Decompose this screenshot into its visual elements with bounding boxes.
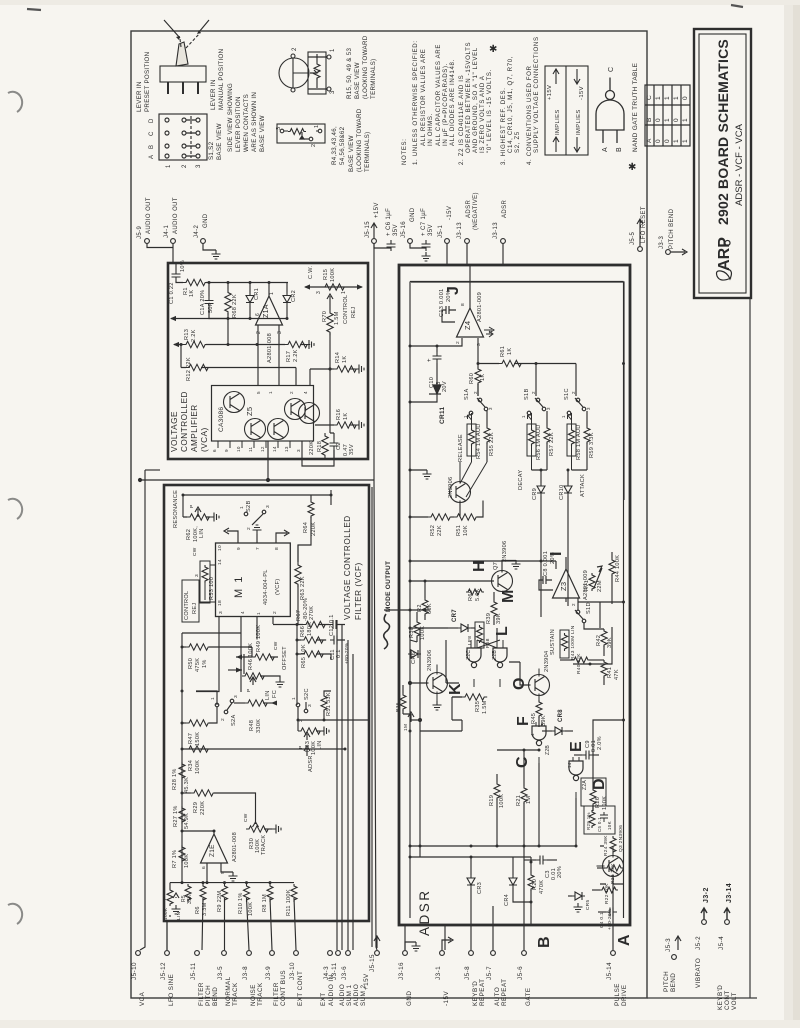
connector J5-7 — [491, 951, 496, 956]
svg-text:R50: R50 — [188, 658, 194, 669]
connector J5-6 — [522, 951, 527, 956]
svg-text:R52: R52 — [430, 525, 436, 536]
wire gate vertical — [405, 811, 613, 950]
svg-text:R25 1%: R25 1% — [586, 812, 591, 830]
op-amp Z1A — [256, 296, 283, 325]
pot R62 — [183, 495, 210, 517]
svg-text:J5-7: J5-7 — [486, 966, 493, 980]
svg-text:3: 3 — [586, 407, 591, 410]
svg-text:ADSR: ADSR — [466, 199, 472, 218]
svg-text:BASE VIEW: BASE VIEW — [259, 115, 266, 152]
svg-text:+80-20%: +80-20% — [607, 908, 613, 930]
resistor R14 — [329, 368, 332, 371]
connector J5-8 — [469, 951, 474, 956]
connector J3-11 — [336, 951, 341, 956]
svg-text:1: 1 — [210, 697, 216, 700]
resistor R34 — [182, 748, 186, 750]
connector J3-6 — [346, 951, 351, 956]
ground C7 — [422, 252, 431, 261]
svg-text:3: 3 — [265, 505, 271, 508]
diode CR9 — [540, 470, 542, 483]
svg-text:J3-5: J3-5 — [217, 966, 224, 980]
svg-text:R44 100K: R44 100K — [615, 555, 621, 582]
svg-text:S1D: S1D — [586, 602, 592, 614]
svg-text:R39: R39 — [486, 613, 492, 624]
svg-text:NAND GATE TRUTH TABLE: NAND GATE TRUTH TABLE — [632, 62, 639, 152]
resistor R51b — [451, 516, 454, 518]
svg-text:-15V: -15V — [447, 206, 453, 220]
svg-text:R28 1%: R28 1% — [172, 768, 178, 790]
svg-text:J3-1: J3-1 — [435, 966, 442, 980]
rail R67 C12 — [273, 624, 345, 626]
pot R71 — [594, 566, 602, 588]
pot arrows AUD — [468, 415, 572, 420]
svg-text:GATE: GATE — [525, 988, 532, 1006]
op-amp Z4 — [457, 308, 484, 337]
svg-text:8: 8 — [274, 547, 280, 550]
resistor R50 — [182, 646, 186, 648]
svg-text:CONT BUS: CONT BUS — [280, 970, 287, 1006]
svg-text:4: 4 — [530, 733, 535, 736]
svg-text:C1A 20%: C1A 20% — [200, 290, 206, 315]
gap bus VCF border double line — [371, 487, 373, 947]
svg-text:J3-6: J3-6 — [341, 966, 348, 980]
svg-text:REPEAT: REPEAT — [501, 979, 508, 1006]
wire gap horizontal — [140, 479, 374, 481]
resistor R23 — [597, 867, 605, 869]
resistor R55 — [486, 411, 488, 426]
wire R40 right — [573, 663, 590, 665]
wire Z3 input rail — [410, 561, 590, 602]
wire ADSR into box — [502, 243, 504, 265]
svg-text:3: 3 — [277, 331, 283, 334]
svg-text:1: 1 — [314, 125, 320, 128]
svg-text:1: 1 — [682, 139, 689, 143]
connector J4-3 — [328, 951, 333, 956]
connector J5-16 GND — [408, 239, 413, 244]
wire right border connects — [590, 627, 624, 780]
connector J5-15 +15V — [372, 239, 377, 244]
svg-text:47K: 47K — [614, 669, 620, 680]
resistor R1 — [183, 279, 208, 285]
svg-text:S1B: S1B — [524, 389, 530, 400]
rail 3 R12 — [181, 367, 296, 369]
svg-text:R20: R20 — [532, 879, 538, 890]
resistor R69 — [466, 580, 494, 582]
svg-text:2: 2 — [571, 391, 576, 394]
svg-text:Z2C: Z2C — [466, 650, 472, 660]
svg-text:VOLT: VOLT — [731, 992, 738, 1010]
svg-text:1: 1 — [256, 612, 262, 615]
svg-text:50P: 50P — [208, 302, 214, 313]
resistor R21 — [521, 786, 527, 804]
svg-text:3: 3 — [488, 407, 493, 410]
svg-text:IN µF (P=PICOFARADS).: IN µF (P=PICOFARADS). — [442, 63, 449, 146]
svg-text:SUSTAIN: SUSTAIN — [550, 629, 556, 655]
svg-text:1: 1 — [664, 96, 671, 100]
capacitor C6 — [374, 243, 391, 248]
connector J5-3 pitch bend — [672, 955, 677, 960]
capacitor C1 — [175, 263, 177, 270]
svg-text:SUM 1: SUM 1 — [346, 984, 353, 1006]
svg-text:2: 2 — [531, 391, 536, 394]
svg-text:R58 1M AUD: R58 1M AUD — [576, 424, 582, 460]
svg-text:OFFSET: OFFSET — [282, 646, 288, 670]
svg-text:ALL RESISTOR VALUES ARE: ALL RESISTOR VALUES ARE — [420, 49, 427, 146]
diode CR4 — [512, 862, 514, 875]
svg-text:CONTROL: CONTROL — [343, 295, 349, 324]
svg-text:LEVER IN: LEVER IN — [210, 79, 217, 110]
diode CR2 — [286, 283, 288, 293]
resistor R2 — [422, 598, 428, 616]
svg-text:20%: 20% — [557, 866, 563, 878]
svg-text:S2B: S2B — [246, 501, 252, 512]
svg-text:(NEGATIVE): (NEGATIVE) — [473, 192, 479, 230]
svg-text:LIN: LIN — [176, 911, 182, 920]
svg-text:1: 1 — [269, 292, 275, 295]
svg-text:R41: R41 — [607, 667, 613, 678]
svg-text:R51: R51 — [456, 525, 462, 536]
svg-text:7: 7 — [255, 547, 261, 550]
svg-text:J3-14: J3-14 — [726, 883, 733, 903]
svg-text:TRACK: TRACK — [261, 835, 267, 855]
VCF label — [343, 515, 363, 620]
connector J3-5 — [222, 951, 227, 956]
svg-text:R49 100K: R49 100K — [256, 625, 262, 652]
svg-text:Z4: Z4 — [463, 321, 472, 330]
svg-text:4: 4 — [240, 611, 246, 614]
svg-text:J5-2: J5-2 — [695, 936, 702, 950]
svg-text:NOISE: NOISE — [250, 984, 257, 1006]
wire Z1E out — [206, 882, 208, 884]
rail R66 C11 — [297, 625, 345, 706]
svg-text:+80-20%: +80-20% — [344, 642, 350, 664]
svg-text:R14: R14 — [335, 352, 341, 363]
connector J5-4 keybd cont volt — [725, 920, 730, 925]
svg-text:VIBRATO: VIBRATO — [695, 958, 702, 988]
svg-text:5: 5 — [256, 391, 261, 394]
conventions box — [545, 66, 588, 155]
svg-text:R59 3.3K: R59 3.3K — [589, 432, 595, 458]
svg-text:(LOOKING TOWARD: (LOOKING TOWARD — [356, 108, 363, 172]
Z4 output arrows — [484, 327, 494, 337]
wire y750 rail — [497, 749, 539, 751]
svg-text:CW: CW — [192, 547, 198, 556]
transistor Q3 — [603, 856, 624, 877]
svg-text:2.2K: 2.2K — [191, 329, 197, 342]
svg-text:5: 5 — [220, 871, 226, 874]
wire pulse R22 — [600, 875, 623, 885]
svg-text:ADSR: ADSR — [502, 199, 508, 218]
svg-text:R15, 50, 49 & 53: R15, 50, 49 & 53 — [346, 48, 353, 99]
connector J4-2 — [201, 239, 206, 244]
svg-text:1: 1 — [166, 164, 172, 168]
svg-text:J3-10: J3-10 — [289, 962, 296, 980]
svg-text:REJ: REJ — [192, 603, 198, 614]
svg-text:A: A — [149, 155, 155, 159]
resistor R41 — [601, 660, 607, 678]
svg-text:CR5: CR5 — [585, 899, 591, 910]
svg-text:475K: 475K — [195, 658, 201, 672]
svg-text:R70: R70 — [322, 311, 328, 322]
ground Q7 — [502, 561, 516, 573]
svg-text:CW: CW — [243, 813, 249, 822]
svg-text:1K: 1K — [342, 356, 348, 363]
svg-text:B: B — [646, 118, 653, 122]
svg-text:LIN: LIN — [265, 690, 271, 700]
wire CR7 rail — [410, 628, 475, 640]
svg-text:MANUAL POSITION: MANUAL POSITION — [218, 49, 225, 110]
svg-text:B: B — [616, 147, 623, 152]
svg-text:R27 1%: R27 1% — [173, 805, 179, 827]
NAND Z2C — [467, 648, 481, 668]
svg-text:2: 2 — [246, 527, 252, 530]
svg-text:LF8: LF8 — [467, 636, 473, 645]
ground R14 — [355, 365, 364, 374]
resistor R18 — [329, 368, 332, 371]
svg-text:LFO RESET: LFO RESET — [641, 206, 647, 243]
svg-text:CR2: CR2 — [291, 290, 297, 302]
svg-text:J5-14: J5-14 — [606, 962, 613, 980]
svg-text:1M: 1M — [526, 796, 532, 804]
IC M1 — [216, 543, 291, 617]
svg-text:R36: R36 — [395, 702, 401, 712]
resistor R36 — [400, 693, 406, 711]
right verticals audio bus — [337, 620, 353, 950]
svg-text:P: P — [246, 689, 252, 693]
svg-text:H: H — [471, 560, 488, 572]
svg-text:2: 2 — [256, 331, 262, 334]
trimpot base view — [277, 124, 325, 143]
-15V arrow — [442, 937, 453, 950]
svg-text:FILTER: FILTER — [198, 982, 205, 1006]
svg-text:AUDIO OUT: AUDIO OUT — [146, 197, 152, 234]
punch hole bottom — [8, 904, 22, 924]
resistor R19 — [494, 782, 500, 800]
connector J3-10 — [294, 951, 299, 956]
svg-text:CR1: CR1 — [254, 288, 260, 300]
wire VCF left stub — [145, 469, 160, 471]
resistor R57 — [546, 411, 548, 426]
svg-text:D: D — [149, 118, 155, 123]
IC CA3086 Z5 — [212, 386, 314, 442]
svg-text:R22 10K: R22 10K — [604, 883, 610, 904]
wires into CA3086 — [268, 337, 334, 480]
svg-text:1%: 1% — [202, 659, 208, 668]
svg-text:J4-1: J4-1 — [164, 224, 170, 238]
resistor R35 — [452, 696, 462, 698]
wire -15V into gap — [446, 243, 448, 265]
trimpot box R26 — [581, 778, 606, 806]
svg-text:P: P — [189, 505, 195, 509]
wire adsr mid extras — [410, 628, 531, 720]
resistor R70 — [327, 310, 333, 335]
svg-text:1: 1 — [561, 415, 566, 418]
pot R33 — [298, 728, 323, 734]
NAND Z2A — [569, 761, 583, 781]
svg-text:R57 22K: R57 22K — [549, 432, 555, 456]
svg-text:AND GROUND, SO A "1" LEVEL: AND GROUND, SO A "1" LEVEL — [472, 47, 479, 153]
svg-text:R4,33,43,46,: R4,33,43,46, — [331, 126, 338, 165]
svg-text:J5-11: J5-11 — [190, 962, 197, 980]
svg-text:VOLTAGE: VOLTAGE — [170, 411, 179, 452]
rail y749 — [182, 748, 345, 750]
svg-text:2: 2 — [182, 164, 188, 168]
svg-text:Z3: Z3 — [559, 582, 568, 591]
resistor R26 — [590, 788, 596, 806]
svg-text:R60: R60 — [469, 373, 475, 384]
connector J3-1 — [440, 951, 445, 956]
svg-text:2. Z2 IS CD4011AE AND IS: 2. Z2 IS CD4011AE AND IS — [458, 75, 465, 165]
svg-text:C8 0.001: C8 0.001 — [543, 551, 549, 576]
svg-text:R63 22K: R63 22K — [300, 576, 306, 600]
svg-text:NOTES:: NOTES: — [401, 138, 408, 165]
svg-text:+ C6 1µF: + C6 1µF — [386, 208, 392, 236]
svg-text:220K: 220K — [200, 801, 206, 815]
svg-text:1: 1 — [673, 96, 680, 100]
svg-text:R18: R18 — [317, 441, 323, 452]
svg-text:J3-2: J3-2 — [703, 887, 710, 903]
svg-text:C14, CR10, J5, M1, Q7, R70,: C14, CR10, J5, M1, Q7, R70, — [507, 56, 514, 153]
svg-text:R65 10K: R65 10K — [301, 644, 307, 668]
pot R68b — [475, 622, 484, 648]
svg-text:(LOOKING TOWARD: (LOOKING TOWARD — [362, 35, 369, 99]
svg-text:AMPLIFIER: AMPLIFIER — [190, 404, 199, 452]
main outer frame — [131, 31, 647, 998]
connector J5-2 vibrato — [702, 920, 707, 925]
VCA label — [170, 391, 209, 452]
svg-text:ARP: ARP — [716, 237, 733, 271]
svg-text:S1C: S1C — [564, 388, 570, 400]
svg-text:R54 1M AUD: R54 1M AUD — [476, 423, 482, 459]
mode output squiggle — [384, 614, 390, 649]
capacitor C13 — [442, 306, 456, 322]
connector J3-13 ADSR — [501, 239, 506, 244]
capacitor C3 — [524, 859, 536, 861]
svg-text:IN OHMS.: IN OHMS. — [427, 113, 434, 146]
svg-text:R64: R64 — [303, 522, 309, 533]
diode CR3 — [470, 857, 472, 875]
capacitor C2 — [330, 433, 334, 439]
svg-text:3: 3 — [233, 695, 239, 698]
resistor R22 — [592, 889, 600, 891]
pot R5 input — [169, 883, 171, 889]
NAND Z2B — [532, 726, 546, 746]
svg-text:0: 0 — [673, 118, 680, 122]
svg-text:IMPLIES: IMPLIES — [555, 109, 561, 135]
truth table — [645, 85, 690, 146]
svg-text:2N3906: 2N3906 — [502, 541, 508, 562]
connector J3-9 — [270, 951, 275, 956]
resistor R17 — [281, 344, 305, 346]
svg-text:A: A — [616, 934, 633, 946]
svg-text:ALL DIODES ARE IN4148.: ALL DIODES ARE IN4148. — [449, 59, 456, 146]
svg-text:C4 0.1: C4 0.1 — [599, 912, 605, 928]
resistor R45 — [536, 700, 542, 718]
svg-text:3: 3 — [307, 704, 313, 707]
resistor R27 — [179, 806, 185, 824]
corner registration marks — [27, 5, 743, 10]
VCA box — [168, 263, 368, 459]
svg-text:R66: R66 — [300, 626, 306, 637]
svg-text:2: 2 — [311, 144, 317, 147]
svg-text:R48: R48 — [249, 720, 255, 731]
svg-text:2.0%: 2.0% — [597, 736, 603, 750]
svg-text:VCA: VCA — [139, 991, 146, 1006]
svg-text:P: P — [162, 897, 168, 901]
ARP logo — [716, 237, 733, 280]
wire top rail — [183, 494, 331, 496]
svg-text:✱: ✱ — [489, 44, 498, 55]
resistor R38 — [414, 620, 420, 638]
svg-text:BEND: BEND — [212, 987, 219, 1006]
svg-text:+15V: +15V — [547, 85, 553, 100]
svg-text:100K: 100K — [163, 907, 169, 920]
svg-text:R34: R34 — [188, 760, 194, 771]
wire bus x420 — [419, 628, 421, 731]
svg-text:AUTO: AUTO — [494, 987, 501, 1006]
svg-text:GND: GND — [203, 213, 209, 228]
svg-text:CW: CW — [273, 641, 279, 650]
svg-text:1: 1 — [330, 48, 336, 52]
capacitor C1A 50P — [208, 283, 210, 297]
pot R49 — [209, 647, 252, 657]
svg-text:100K: 100K — [195, 760, 201, 774]
wire Q7 base rail — [410, 581, 466, 590]
svg-text:1: 1 — [521, 415, 526, 418]
svg-text:FILTER: FILTER — [273, 982, 280, 1006]
svg-text:CR10: CR10 — [559, 484, 565, 500]
wire sustain rail — [536, 620, 541, 664]
svg-text:4. CONVENTIONS USED FOR: 4. CONVENTIONS USED FOR — [526, 65, 533, 165]
svg-text:39K: 39K — [496, 613, 502, 624]
connector J5-12 — [165, 951, 170, 956]
CA3086 pin stubs bottom — [218, 441, 302, 448]
punch hole middle — [8, 499, 22, 519]
svg-text:1.5M: 1.5M — [482, 700, 488, 714]
svg-text:Q3 2N3906: Q3 2N3906 — [618, 825, 624, 852]
svg-text:100K: 100K — [330, 268, 336, 282]
svg-text:C12 0.1: C12 0.1 — [329, 614, 335, 636]
svg-text:3: 3 — [296, 449, 301, 452]
svg-text:2.2K: 2.2K — [293, 349, 299, 362]
pot R30 — [253, 822, 259, 827]
svg-text:13: 13 — [284, 446, 289, 452]
svg-text:0: 0 — [682, 96, 689, 100]
transistor Q in CA3086 top-left — [224, 392, 245, 413]
svg-text:(VCF): (VCF) — [275, 579, 281, 595]
svg-text:10%: 10% — [180, 260, 186, 272]
svg-text:1: 1 — [673, 139, 680, 143]
svg-text:3: 3 — [276, 127, 282, 130]
svg-text:330K: 330K — [256, 719, 262, 733]
connector J3-8 — [247, 951, 252, 956]
diode CR1 — [249, 283, 251, 293]
NAND Z2D — [493, 648, 507, 668]
connector J5-11 — [195, 951, 200, 956]
transistor Q 2N3906 — [450, 482, 471, 503]
svg-text:J3-8: J3-8 — [242, 966, 249, 980]
svg-text:C: C — [608, 67, 615, 72]
svg-text:-15V: -15V — [579, 86, 585, 100]
GND symbol bottom — [405, 942, 416, 950]
svg-text:14: 14 — [217, 559, 223, 565]
svg-text:8: 8 — [460, 303, 466, 306]
svg-text:J4-2: J4-2 — [194, 224, 200, 238]
svg-text:10: 10 — [217, 545, 223, 551]
svg-text:1K: 1K — [189, 290, 195, 297]
ground at J4-2 — [203, 243, 216, 250]
